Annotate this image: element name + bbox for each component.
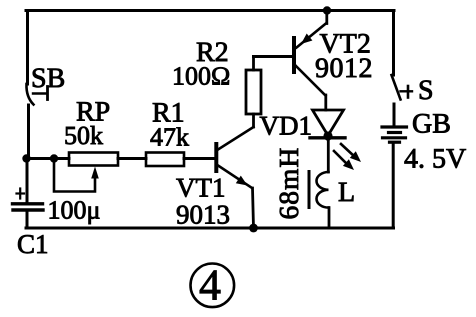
switch SB	[26, 63, 65, 105]
svg-text:50k: 50k	[64, 121, 103, 150]
node junction dot wiper tap	[50, 154, 58, 162]
wire right upper (rail to switch S)	[392, 11, 395, 76]
figure number 4	[191, 261, 235, 310]
node junction dot bottom rail	[249, 224, 258, 233]
wire left lower (SB to node)	[27, 105, 30, 158]
svg-text:47k: 47k	[150, 123, 189, 152]
inductor L	[273, 147, 355, 220]
wire capacitor to bottom rail	[26, 212, 29, 229]
transistor VT2	[294, 23, 373, 96]
wire R2 to VT2 base	[254, 55, 293, 58]
wire R1 to VT1 base	[184, 157, 215, 160]
wire left upper	[26, 11, 29, 85]
svg-text:9012: 9012	[315, 53, 373, 84]
wire node to capacitor	[26, 159, 29, 203]
LED light arrow 1	[341, 144, 361, 162]
svg-text:VD1: VD1	[260, 111, 313, 141]
svg-text:SB: SB	[31, 63, 65, 94]
switch S	[392, 75, 434, 106]
svg-text:9013: 9013	[176, 200, 230, 230]
node junction dot top (VT2 emitter to rail)	[323, 6, 331, 14]
wire bottom rail	[26, 227, 394, 230]
svg-text:100μ: 100μ	[48, 196, 101, 225]
wire VD1 to inductor	[327, 139, 330, 172]
node junction dot left rail	[22, 154, 30, 162]
capacitor C1	[13, 189, 101, 260]
wire inductor to bottom rail	[328, 208, 331, 228]
battery GB	[382, 109, 466, 175]
wire VT2 emitter to top rail	[325, 11, 328, 24]
wire VT2 collector to VD1	[324, 95, 327, 110]
transistor VT1	[176, 127, 254, 230]
LED light arrow 2	[334, 151, 354, 170]
svg-text:68mH: 68mH	[273, 147, 304, 220]
svg-text:S: S	[418, 75, 434, 106]
wire RP to R1	[118, 157, 146, 160]
svg-text:4: 4	[199, 261, 221, 310]
wire main horizontal node to RP	[26, 157, 69, 160]
LED VD1	[260, 110, 346, 141]
wire VT1 emitter to bottom rail	[253, 188, 254, 228]
svg-text:GB: GB	[412, 109, 451, 140]
svg-text:VT1: VT1	[176, 173, 226, 203]
resistor R2	[172, 37, 261, 127]
resistor R1	[146, 98, 189, 167]
wire switch S to battery	[393, 104, 396, 126]
potentiometer RP	[54, 97, 118, 192]
svg-text:4. 5V: 4. 5V	[404, 144, 466, 175]
svg-text:100Ω: 100Ω	[172, 62, 230, 91]
wire battery to bottom rail	[392, 144, 395, 229]
svg-text:L: L	[338, 177, 355, 208]
wire top rail	[26, 9, 394, 12]
svg-text:C1: C1	[17, 229, 49, 259]
